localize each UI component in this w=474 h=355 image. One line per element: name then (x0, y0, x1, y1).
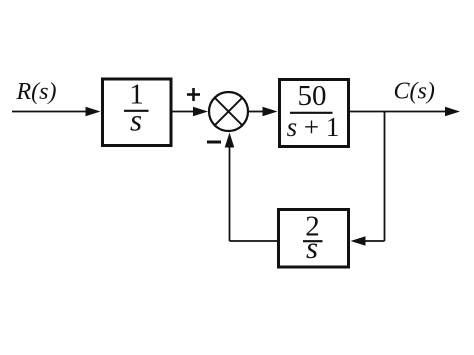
block G1 (1/s) (103, 79, 172, 146)
wire block H output left (230, 240, 278, 242)
block H (2/s) (279, 210, 349, 268)
svg-text:s + 1: s + 1 (287, 112, 340, 142)
wire branch point down (384, 112, 386, 242)
plus sign at summing junction (187, 88, 200, 101)
wire input to block G1 (12, 107, 101, 117)
svg-text:50: 50 (298, 80, 327, 112)
summing junction circle with X (209, 92, 248, 131)
wire feedback up into summing junction (225, 133, 235, 242)
wire G1 to summing junction (173, 107, 209, 117)
node R(s) input label (16, 79, 57, 105)
svg-text:s: s (130, 103, 142, 138)
block G2 (50/(s+1)) (280, 80, 349, 147)
value label 50/(s+1) (287, 80, 340, 142)
svg-text:s: s (306, 230, 318, 265)
svg-text:R(s): R(s) (16, 79, 57, 105)
value label 2/s (303, 211, 323, 266)
svg-text:C(s): C(s) (394, 79, 435, 105)
wire branch to block H right side (351, 236, 385, 246)
wire G2 to output C(s) (350, 107, 460, 117)
node C(s) output label (394, 79, 435, 105)
wire summing junction to block G2 (248, 107, 278, 117)
minus sign at summing junction (207, 141, 221, 144)
value label 1/s (124, 79, 149, 138)
